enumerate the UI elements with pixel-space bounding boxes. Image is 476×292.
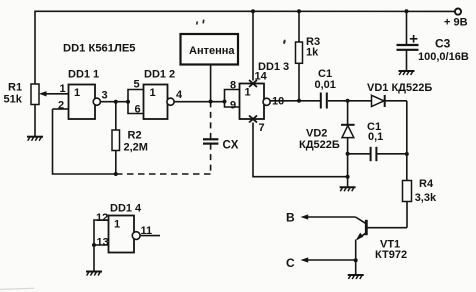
svg-text:7: 7 — [259, 122, 265, 134]
svg-text:14: 14 — [255, 71, 268, 83]
svg-text:R1: R1 — [8, 82, 22, 94]
svg-text:51k: 51k — [4, 94, 23, 106]
svg-text:5: 5 — [134, 79, 140, 91]
svg-text:1: 1 — [245, 87, 251, 99]
svg-text:DD1 1: DD1 1 — [68, 69, 99, 81]
svg-text:VD1 КД522Б: VD1 КД522Б — [367, 82, 432, 94]
svg-text:2,2М: 2,2М — [124, 142, 148, 154]
svg-text:3,3k: 3,3k — [415, 192, 437, 204]
svg-text:11: 11 — [141, 225, 153, 237]
svg-text:C3: C3 — [435, 37, 451, 51]
svg-text:12: 12 — [96, 212, 108, 224]
svg-text:DD1 К561ЛЕ5: DD1 К561ЛЕ5 — [63, 43, 136, 55]
svg-text:DD1 2: DD1 2 — [144, 69, 175, 81]
svg-text:10: 10 — [272, 95, 284, 107]
svg-text:КТ972: КТ972 — [375, 249, 407, 261]
svg-text:0,01: 0,01 — [315, 79, 336, 91]
svg-text:С: С — [286, 256, 295, 270]
svg-text:R2: R2 — [128, 130, 142, 142]
svg-text:1: 1 — [114, 219, 120, 231]
svg-text:1k: 1k — [306, 47, 319, 59]
svg-text:R4: R4 — [419, 178, 434, 190]
svg-text:Антенна: Антенна — [189, 45, 235, 57]
svg-text:13: 13 — [97, 237, 109, 249]
svg-text:VD2: VD2 — [306, 128, 327, 140]
svg-text:100,0/16В: 100,0/16В — [418, 51, 469, 63]
svg-text:2: 2 — [58, 100, 64, 112]
svg-text:3: 3 — [102, 90, 108, 102]
svg-text:КД522Б: КД522Б — [299, 139, 340, 151]
svg-text:1: 1 — [74, 87, 80, 99]
svg-text:CX: CX — [223, 140, 239, 152]
svg-text:В: В — [286, 211, 295, 225]
svg-text:6: 6 — [135, 104, 141, 116]
svg-text:8: 8 — [230, 80, 236, 92]
svg-text:+ 9В: + 9В — [444, 17, 468, 29]
svg-text:0,1: 0,1 — [368, 131, 383, 143]
svg-text:9: 9 — [230, 100, 236, 112]
svg-text:1: 1 — [60, 83, 66, 95]
svg-text:DD1 4: DD1 4 — [110, 203, 142, 215]
svg-text:1: 1 — [150, 87, 156, 99]
svg-text:4: 4 — [176, 89, 183, 101]
